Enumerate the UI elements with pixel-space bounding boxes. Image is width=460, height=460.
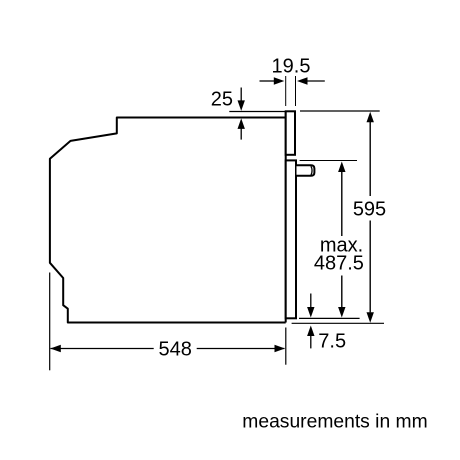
door handle xyxy=(297,165,315,176)
dim 595 line upper segment xyxy=(369,122,371,197)
dim 7.5 down arrow xyxy=(310,294,312,308)
dim 595 top arrow xyxy=(367,112,374,123)
dim 19.5 left extension line xyxy=(285,76,287,106)
dim 595 line lower segment xyxy=(369,221,371,313)
dim 548 line left segment xyxy=(51,348,154,350)
dim 25 extension line (frame top level) xyxy=(229,111,285,113)
dim 25 up arrow xyxy=(238,118,245,128)
handle end cap line xyxy=(311,166,312,175)
oven front frame (upper panel) xyxy=(286,111,295,155)
dim 595 bottom arrow xyxy=(367,312,374,323)
svg-text:7.5: 7.5 xyxy=(318,331,346,353)
oven body outline xyxy=(50,118,286,323)
dim 548 right arrow xyxy=(275,345,286,352)
dim 19.5 left arrow xyxy=(260,80,275,82)
door-top extension line (max 487.5 upper ref) xyxy=(300,160,357,162)
svg-text:25: 25 xyxy=(211,89,233,111)
dim 548 right extension line xyxy=(285,328,287,365)
dim max487.5 bottom arrow xyxy=(338,307,345,318)
svg-text:595: 595 xyxy=(353,199,386,221)
svg-text:548: 548 xyxy=(159,339,192,361)
top-right extension line (frame top level) xyxy=(300,110,380,112)
dim 548 left arrow xyxy=(50,345,61,352)
svg-text:19.5: 19.5 xyxy=(272,56,311,78)
dim max487.5 line lower segment xyxy=(341,276,343,308)
oven body right edge behind front panel xyxy=(285,111,287,322)
dim 25 down arrow xyxy=(240,88,242,102)
body-bottom extension line (7.5 lower / 595 lower ref) xyxy=(292,322,384,324)
dim 548 left extension line xyxy=(49,273,51,371)
dim 19.5 right arrow xyxy=(307,80,325,82)
dim 548 line right segment xyxy=(197,348,285,350)
door-bottom extension line (7.5 upper ref) xyxy=(299,317,360,319)
dim 7.5 up arrow xyxy=(307,326,314,337)
dim max487.5 top arrow xyxy=(338,162,345,173)
svg-text:487.5: 487.5 xyxy=(314,252,364,274)
svg-text:measurements in mm: measurements in mm xyxy=(242,412,427,433)
oven door front xyxy=(286,160,296,318)
dim max487.5 line upper segment xyxy=(341,172,343,236)
dim 19.5 right extension line xyxy=(295,76,297,106)
